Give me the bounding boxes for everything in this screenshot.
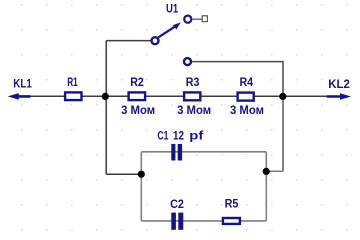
svg-text:C1: C1 (157, 131, 168, 143)
switch U1 pole contact circle (152, 37, 159, 44)
svg-text:3 Мом: 3 Мом (121, 105, 155, 117)
wire: right stub into loop node D (266, 170, 283, 172)
svg-text:U1: U1 (166, 3, 179, 15)
svg-text:3 Мом: 3 Мом (230, 105, 264, 117)
wire: main horizontal KL1-KL2 line (28, 95, 328, 97)
KL2 terminal arrow (327, 93, 351, 100)
wire: loop top branch (C1) (141, 151, 266, 153)
svg-text:R3: R3 (186, 77, 200, 89)
wire: right vertical from node B down (282, 96, 284, 171)
node C junction dot (138, 171, 145, 178)
svg-text:KL1: KL1 (13, 79, 32, 91)
switch U1 second throw contact circle (lower) (184, 58, 191, 65)
svg-text:R5: R5 (225, 199, 239, 211)
wire: horizontal to switch pole contact (106, 40, 151, 42)
svg-text:R4: R4 (240, 77, 254, 89)
node A junction dot (102, 93, 109, 100)
switch U1 terminal square (193, 18, 202, 20)
svg-text:KL2: KL2 (328, 79, 350, 91)
svg-text:R2: R2 (130, 77, 144, 89)
node D junction dot (263, 168, 270, 175)
node B junction dot (279, 93, 286, 100)
resistor R2 (129, 92, 146, 100)
switch U1 lever arrow (158, 22, 181, 37)
KL1 terminal arrow (8, 93, 31, 100)
svg-text:12: 12 (173, 131, 184, 143)
resistor R1 (65, 92, 81, 100)
capacitor C1 (171, 144, 182, 161)
svg-text:pf: pf (189, 131, 203, 143)
resistor R5 (223, 218, 240, 224)
wire: vertical from switch pole down through node A to bottom loop stub (105, 41, 107, 175)
wire: loop right vertical (265, 152, 267, 221)
svg-text:C2: C2 (170, 199, 184, 211)
resistor R3 (184, 92, 200, 100)
switch U1 throw contact circle (upper) (184, 16, 191, 23)
resistor R4 (238, 93, 254, 101)
wire: loop left vertical (140, 152, 142, 221)
capacitor C2 (171, 213, 183, 230)
svg-text:3 Мом: 3 Мом (177, 105, 211, 117)
wire: from switch throw contact to right vertical (192, 62, 283, 97)
wire: left stub into loop node C (106, 173, 141, 175)
svg-text:R1: R1 (67, 77, 78, 89)
wire: loop bottom branch (C2,R5) (141, 220, 266, 222)
